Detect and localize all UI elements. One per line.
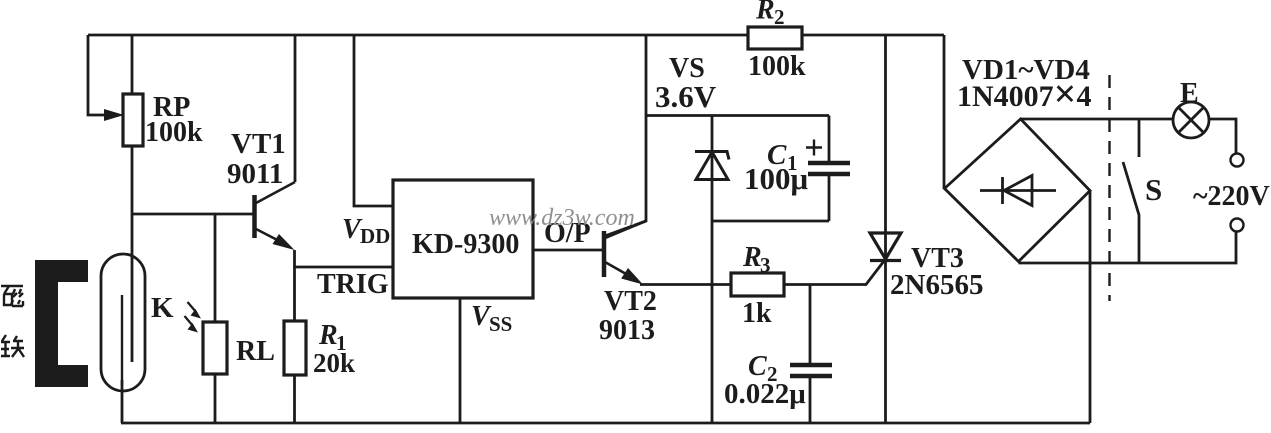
svg-text:100k: 100k xyxy=(748,51,806,82)
wire bottom rail xyxy=(121,422,1090,425)
wire O/P xyxy=(533,249,604,252)
terminal upper xyxy=(1231,154,1244,167)
wire R1 bottom xyxy=(293,375,296,423)
label magnet char ci xyxy=(1,286,23,306)
reed switch K capsule xyxy=(101,254,145,391)
wire AC top to lamp and terminal xyxy=(1021,119,1236,154)
wire VT1 collector vertical xyxy=(294,35,297,182)
svg-text:S: S xyxy=(1145,172,1162,207)
wire switch stub xyxy=(1138,119,1141,157)
dashed separator line xyxy=(1108,75,1110,301)
resistor RL xyxy=(203,322,227,374)
transistor VT1 xyxy=(255,182,296,250)
wire RL bottom xyxy=(214,374,217,423)
resistor R3 xyxy=(731,273,784,296)
wire C1 right vertical xyxy=(828,116,831,222)
svg-text:RL: RL xyxy=(236,336,275,367)
wire R3 to VT3 gate xyxy=(784,261,884,285)
zener diode VS xyxy=(695,152,729,180)
wire bridge left corner vertical xyxy=(943,35,946,189)
wire left bend to RP wiper xyxy=(88,35,104,115)
wire VT1 emitter / TRIG / R1 vertical xyxy=(293,250,296,321)
svg-text:K: K xyxy=(151,292,174,324)
wire C2 top xyxy=(809,285,812,424)
svg-text:E: E xyxy=(1180,78,1199,109)
wire switch blade xyxy=(1123,162,1139,263)
wire K bottom xyxy=(121,380,124,423)
svg-text:KD-9300: KD-9300 xyxy=(412,229,519,260)
svg-text:www.dz3w.com: www.dz3w.com xyxy=(489,205,635,231)
svg-text:100k: 100k xyxy=(145,117,203,148)
svg-text:VT2: VT2 xyxy=(604,286,657,317)
magnet symbol xyxy=(35,260,88,387)
wire RP bottom to K reed xyxy=(131,146,134,362)
lamp E xyxy=(1173,102,1209,138)
wire bridge right corner down xyxy=(1089,191,1092,423)
svg-text:0.022μ: 0.022μ xyxy=(724,378,806,410)
svg-text:~220V: ~220V xyxy=(1193,181,1270,212)
thyristor VT3 xyxy=(870,233,901,261)
wire VT3 cathode xyxy=(884,261,887,424)
svg-text:1k: 1k xyxy=(742,298,772,329)
wire AC bottom xyxy=(1019,232,1237,264)
svg-text:2N6565: 2N6565 xyxy=(890,269,983,301)
wire VT3 anode xyxy=(884,35,887,259)
svg-text:20k: 20k xyxy=(313,348,355,378)
wire VDD xyxy=(354,35,393,206)
svg-text:100μ: 100μ xyxy=(744,161,809,196)
wire zener vertical long xyxy=(711,116,714,424)
svg-text:R: R xyxy=(742,242,762,273)
svg-text:TRIG: TRIG xyxy=(317,269,389,300)
svg-text:2: 2 xyxy=(774,5,785,29)
capacitor C1 xyxy=(808,163,850,174)
wire C1 bottom loop xyxy=(712,220,829,223)
svg-text:VT1: VT1 xyxy=(231,128,286,160)
IC U1 KD-9300 box xyxy=(393,180,533,298)
svg-text:3.6V: 3.6V xyxy=(655,79,717,114)
svg-text:SS: SS xyxy=(489,312,512,336)
wire VS horizontal xyxy=(646,114,829,117)
label magnet char tie xyxy=(1,335,24,357)
wire TRIG xyxy=(295,266,394,269)
transistor VT2 xyxy=(604,221,646,285)
wire VT1 base xyxy=(132,213,253,216)
wire top rail xyxy=(88,34,944,37)
potentiometer RP xyxy=(104,94,143,146)
wire RL top xyxy=(214,214,217,322)
wire VT2 collector to VS line xyxy=(605,35,646,236)
svg-text:R: R xyxy=(318,320,338,351)
terminal lower xyxy=(1231,219,1244,232)
LDR arrows at RL xyxy=(185,302,202,333)
svg-text:DD: DD xyxy=(360,224,390,248)
wire RP top xyxy=(131,35,134,94)
wire VT2 emitter to R3 xyxy=(640,283,731,286)
resistor R1 xyxy=(284,321,306,375)
wire VSS xyxy=(459,298,462,423)
plus sign C1 xyxy=(806,140,822,156)
capacitor C2 xyxy=(790,365,832,376)
resistor R2 xyxy=(748,27,802,49)
svg-text:9011: 9011 xyxy=(227,158,283,190)
svg-text:R: R xyxy=(755,0,775,26)
svg-text:3: 3 xyxy=(760,253,771,277)
svg-text:9013: 9013 xyxy=(599,315,655,346)
bridge rectifier VD1-VD4 xyxy=(945,119,1091,262)
